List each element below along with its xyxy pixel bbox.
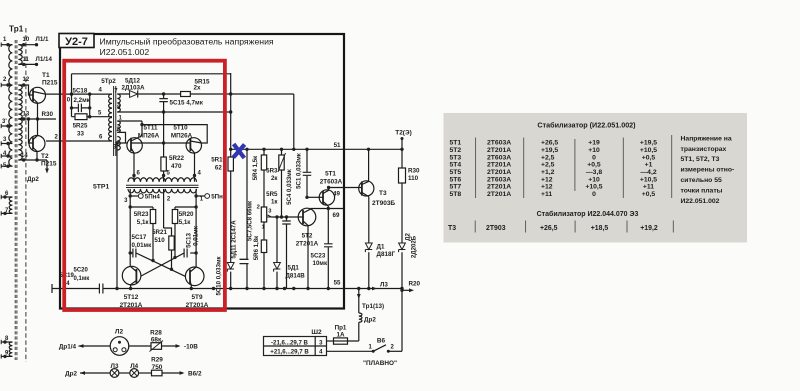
table panel: [444, 113, 748, 243]
svg-text:+11: +11: [541, 191, 552, 198]
wire T2 base from pin 13: [29, 119, 34, 143]
svg-text:55: 55: [334, 280, 341, 287]
svg-text:И22.051.002: И22.051.002: [100, 47, 150, 57]
svg-text:+1: +1: [645, 162, 653, 169]
svg-text:5R22: 5R22: [169, 155, 185, 162]
svg-text:+19,5: +19,5: [541, 147, 558, 154]
wire 5TP1 pin1 down to 5T9 collector: [195, 207, 197, 267]
svg-text:5R4 1,5к: 5R4 1,5к: [252, 155, 259, 180]
pin 49 wire to T3 base: [329, 187, 362, 189]
svg-text:+10,5: +10,5: [640, 147, 657, 154]
svg-text:5R3: 5R3: [266, 168, 278, 175]
diode 5D12 2D103A: [130, 91, 138, 98]
svg-text:+0,5: +0,5: [642, 191, 656, 198]
svg-text:62: 62: [215, 165, 222, 172]
arrow to L3 on bus 55: [372, 287, 377, 291]
svg-text:Т3: Т3: [448, 225, 456, 232]
svg-text:2Д202Б: 2Д202Б: [411, 235, 418, 258]
lamp L2: [110, 337, 129, 356]
svg-text:2Т201А: 2Т201А: [296, 241, 319, 248]
svg-text:5Д1: 5Д1: [288, 265, 300, 272]
svg-text:5R5: 5R5: [266, 191, 278, 198]
coupling wire box: [142, 125, 207, 143]
svg-text:0,01мк: 0,01мк: [132, 242, 153, 249]
pin 5 of 5TP1: [162, 174, 165, 177]
svg-text:5R25: 5R25: [73, 123, 88, 130]
svg-text:-10В: -10В: [184, 344, 198, 351]
svg-text:2Т603А: 2Т603А: [487, 154, 511, 161]
svg-text:В6: В6: [377, 338, 386, 345]
zener 5D1 D814V: [276, 217, 278, 289]
svg-text:2Т603А: 2Т603А: [487, 140, 511, 147]
svg-text:+0,5: +0,5: [587, 162, 601, 169]
svg-text:5Т8: 5Т8: [450, 191, 462, 198]
svg-text:+19,5: +19,5: [640, 140, 657, 147]
svg-text:5Пн4: 5Пн4: [145, 194, 161, 201]
capacitor 5C4 0,033mk: [286, 217, 288, 289]
svg-text:5Т3: 5Т3: [450, 154, 462, 161]
svg-text:Л3: Л3: [111, 363, 119, 370]
zener 5D11 2S147A: [227, 263, 234, 270]
5Tp2 primary winding 4-5-6: [109, 94, 112, 141]
lamp L3: [110, 369, 119, 378]
capacitors 5C7,5C8 66mk: [246, 149, 248, 288]
svg-text:2Т903: 2Т903: [486, 225, 506, 232]
svg-text:5С1 0,033мк: 5С1 0,033мк: [296, 152, 303, 189]
svg-text:2Т201А: 2Т201А: [487, 169, 511, 176]
svg-text:R20: R20: [409, 281, 421, 288]
resistor 5R6 1,8k: [263, 222, 265, 289]
svg-text:5ТР1: 5ТР1: [93, 184, 109, 191]
bus left T-end: [51, 284, 53, 293]
svg-text:И22.051.002: И22.051.002: [681, 198, 720, 205]
5Tp2 pin 4: [45, 93, 112, 95]
svg-text:+12: +12: [541, 176, 553, 183]
svg-text:2Т201А: 2Т201А: [186, 302, 209, 309]
svg-text:10мк: 10мк: [313, 260, 328, 267]
svg-text:+1,2: +1,2: [541, 169, 555, 176]
transformer Tr1 core (dashed): [15, 40, 17, 360]
svg-text:11: 11: [23, 57, 30, 63]
5Tp2 winding 7-8: [117, 94, 120, 112]
Tr1 winding 8-9: [9, 342, 12, 356]
Tr1 winding 12-13: [18, 85, 22, 119]
svg-text:+10: +10: [588, 176, 600, 183]
Tr1 pin 13 node (to T2 base and R30): [18, 118, 56, 120]
resistor 5R19 62: [228, 157, 233, 171]
svg-text:2х: 2х: [194, 85, 202, 92]
svg-text:5,1к: 5,1к: [179, 219, 192, 226]
wire 5TP1 pin3 down to 5T12 collector: [129, 207, 131, 266]
capacitor 5C15 4,7mk: [163, 94, 165, 143]
svg-text:+10,5: +10,5: [585, 184, 602, 191]
Tr1 pin 10 to lamp L1/1: [18, 44, 37, 46]
svg-text:2Т201А: 2Т201А: [487, 162, 511, 169]
red marker box: [64, 61, 225, 310]
diode D2 2D202B: [399, 243, 406, 250]
Tr1 pin 14 to Dr2: [18, 160, 47, 171]
5Tp2 pin 7: [117, 93, 119, 95]
transistor 5T1 2T603A: [319, 190, 334, 205]
5TP1 pin 3 stub: [129, 189, 131, 207]
svg-text:R29: R29: [151, 357, 163, 364]
resistor 5R22 470: [163, 143, 165, 182]
arrow to R20: [402, 289, 409, 291]
Tr1 pin 3: [1, 143, 12, 145]
svg-text:Т1: Т1: [42, 72, 50, 79]
svg-text:5Т4: 5Т4: [450, 162, 462, 169]
svg-text:+10: +10: [588, 147, 600, 154]
5Tp2 pin 3 stub: [116, 149, 118, 151]
svg-text:Ш2: Ш2: [311, 329, 322, 336]
cross-coupling wire to 5T12 base: [141, 253, 184, 276]
top feedback wire y=73: [72, 73, 231, 75]
svg-text:R30: R30: [408, 168, 420, 175]
svg-text:5С15 4,7мк: 5С15 4,7мк: [170, 100, 204, 107]
svg-text:5Т1, 5Т2, Т3: 5Т1, 5Т2, Т3: [681, 156, 720, 163]
svg-text:10: 10: [23, 37, 30, 43]
svg-text:R30: R30: [42, 111, 54, 118]
svg-text:П215: П215: [42, 80, 58, 87]
svg-text:МП26А: МП26А: [171, 133, 193, 140]
fuse Pr1 1A: [334, 338, 348, 344]
svg-text:"ПЛАВНО": "ПЛАВНО": [363, 360, 397, 367]
svg-text:470: 470: [171, 163, 182, 170]
svg-text:Стабилизатор (И22.051.002): Стабилизатор (И22.051.002): [537, 121, 636, 130]
svg-text:33: 33: [77, 131, 84, 138]
Tr1 pin 3': [1, 125, 12, 127]
svg-text:5Т5: 5Т5: [450, 169, 462, 176]
svg-text:5С10 0,033мк: 5С10 0,033мк: [216, 256, 223, 296]
T3 row separators: [475, 221, 673, 233]
svg-text:Импульсный преобразователь нап: Импульсный преобразователь напряжения: [100, 37, 274, 47]
svg-text:Л1/14: Л1/14: [36, 56, 53, 63]
Tr1 pin 11 to lamp L1/14: [18, 63, 37, 65]
lamp L2 row wire: [79, 344, 84, 348]
module U2-7 border: [60, 34, 344, 309]
pin 69 row: [310, 208, 343, 210]
transistor 5T11 MP26A: [127, 138, 142, 153]
svg-text:0: 0: [592, 154, 596, 161]
svg-text:МП26А: МП26А: [138, 133, 160, 140]
svg-text:+26,5: +26,5: [540, 225, 558, 232]
svg-text:5С4 0,033мк: 5С4 0,033мк: [286, 168, 293, 205]
svg-text:транзисторах: транзисторах: [681, 146, 727, 153]
svg-text:5Т9: 5Т9: [191, 294, 202, 301]
transformer Tr1 primary winding: [9, 45, 13, 167]
svg-text:5Д11 2С147А: 5Д11 2С147А: [230, 220, 237, 259]
svg-text:0,1мк: 0,1мк: [74, 276, 90, 282]
svg-text:2: 2: [257, 205, 260, 211]
svg-text:5С23: 5С23: [311, 253, 326, 260]
svg-text:2Т201А: 2Т201А: [120, 302, 143, 309]
Tr1 winding 6-7: [9, 197, 12, 213]
5TP1 pin 2 stub to 5R21: [164, 189, 172, 236]
transformer Tr1 shield (dash line): [25, 28, 27, 362]
svg-text:5С17: 5С17: [132, 234, 147, 241]
resistor R30 110: [401, 149, 403, 243]
svg-text:2к: 2к: [271, 175, 278, 182]
resistor R29 750: [152, 370, 163, 376]
resistor 5R25 33: [72, 116, 113, 118]
svg-text:0: 0: [592, 191, 596, 198]
svg-text:В6/2: В6/2: [188, 371, 202, 378]
svg-text:+11: +11: [643, 184, 654, 191]
node x=90: [89, 94, 91, 117]
cross-coupling wire to 5T9 base: [136, 253, 185, 276]
pin 6 of 5TP1: [132, 174, 135, 177]
svg-text:Др2: Др2: [27, 176, 39, 183]
svg-text:49: 49: [333, 191, 340, 198]
5TP1 top winding: [128, 178, 197, 182]
svg-text:5Т7: 5Т7: [450, 184, 462, 191]
svg-text:Др2: Др2: [65, 371, 77, 378]
svg-text:0,01мк: 0,01мк: [193, 225, 200, 246]
pin 4 of 5TP1: [193, 174, 196, 177]
svg-text:Т2(Э): Т2(Э): [395, 129, 412, 136]
transistor 5T12 2T201A: [122, 266, 141, 285]
svg-text:+19: +19: [588, 140, 600, 147]
svg-text:5R20: 5R20: [179, 211, 194, 218]
svg-text:Тр1: Тр1: [9, 25, 24, 34]
svg-text:5R6 1,8к: 5R6 1,8к: [253, 235, 260, 260]
resistor 5R15 2x: [181, 92, 191, 97]
svg-text:+12: +12: [541, 184, 553, 191]
5Tp2 winding 2-3: [117, 137, 120, 151]
svg-text:5Т1: 5Т1: [325, 171, 336, 178]
svg-text:Пр1: Пр1: [335, 325, 347, 332]
svg-text:5Т1: 5Т1: [450, 140, 462, 147]
table column separators: [476, 135, 672, 198]
svg-text:+26,5: +26,5: [541, 140, 558, 147]
lamp L4: [130, 369, 139, 378]
transistor 5T9 2T201A: [185, 267, 204, 286]
svg-text:68к: 68к: [151, 337, 162, 344]
svg-text:14: 14: [21, 153, 28, 159]
svg-text:-21,6...29,7 В: -21,6...29,7 В: [271, 339, 309, 346]
svg-text:Т3: Т3: [379, 190, 387, 197]
svg-text:2Т903Б: 2Т903Б: [372, 200, 395, 207]
svg-text:5Т2: 5Т2: [450, 147, 462, 154]
base row wire to 5T2: [272, 216, 304, 218]
5Tp2 winding 1-2: [117, 121, 120, 132]
svg-text:1А: 1А: [336, 332, 345, 339]
svg-text:51: 51: [334, 142, 341, 149]
series capacitor 5C20 0,1mk: [99, 284, 103, 294]
svg-text:5,1к: 5,1к: [137, 219, 150, 226]
5Tp2 pin 2 wire: [117, 132, 125, 143]
resistor 5R23 5,1k: [130, 207, 153, 261]
svg-text:Л2: Л2: [115, 329, 124, 336]
switch V6: [327, 350, 373, 352]
svg-text:5Т6: 5Т6: [450, 176, 462, 183]
vertical x=230.7 with 5R19 and 5D11: [230, 73, 232, 289]
Tr1 pin 12 wire to T1 base: [18, 85, 33, 95]
svg-text:750: 750: [152, 364, 163, 371]
svg-text:2Т201А: 2Т201А: [487, 147, 511, 154]
Tr1 pin 5: [1, 165, 12, 167]
resistor 5R3 2k (trimmer): [281, 149, 283, 217]
left vertical x=117: [116, 143, 118, 289]
svg-text:+18,5: +18,5: [591, 225, 609, 232]
svg-text:Стабилизатор И22.044.070 Э3: Стабилизатор И22.044.070 Э3: [537, 210, 639, 218]
svg-text:+2,5: +2,5: [541, 162, 555, 169]
choke Dr2: [359, 313, 362, 322]
svg-text:2Д103А: 2Д103А: [121, 85, 144, 92]
svg-text:точки платы: точки платы: [681, 188, 723, 195]
transistor 5T10 MP26A: [186, 138, 201, 153]
svg-text:+10,5: +10,5: [640, 176, 657, 183]
svg-text:+19,2: +19,2: [640, 225, 658, 232]
svg-text:5Д12: 5Д12: [125, 78, 140, 85]
5Tp2 pin 8 row: [117, 111, 230, 113]
resistor R28 68k: [151, 343, 162, 350]
main bus 51 row y=149.3: [231, 148, 402, 150]
test point 5Pn4: [130, 195, 138, 197]
zener D1 D818G: [365, 243, 372, 250]
5TP1 core: [126, 185, 199, 187]
5Tp2 pin 1 row: [117, 120, 142, 122]
svg-text:Тр1(13): Тр1(13): [362, 303, 384, 310]
test point 5Pn3: [196, 195, 205, 197]
svg-text:2Т603А: 2Т603А: [487, 176, 511, 183]
capacitor 5C23 10mk: [327, 209, 329, 289]
svg-text:Др1/4: Др1/4: [59, 344, 77, 351]
wire down to Tr1(13)/Dr2: [358, 289, 360, 314]
U2-7 label box: [59, 34, 94, 48]
5Tp2 core: [114, 86, 116, 156]
svg-text:2Т201А: 2Т201А: [487, 191, 511, 198]
potentiometer 5R5 1k: [261, 207, 266, 222]
svg-text:R28: R28: [150, 330, 162, 337]
svg-text:Т2: Т2: [41, 153, 49, 160]
5TP1 bottom winding: [128, 189, 197, 193]
Tr1 secondary winding 10-11: [18, 45, 22, 65]
svg-text:+2,5: +2,5: [541, 154, 555, 161]
Tr1 pin 1: [1, 44, 12, 46]
svg-text:13: 13: [23, 112, 30, 118]
svg-text:110: 110: [408, 175, 419, 182]
transistor T3 2T903B: [359, 181, 374, 196]
svg-text:5С13: 5С13: [185, 233, 192, 248]
svg-text:5С20: 5С20: [74, 268, 89, 274]
Tr1 winding 13-14: [18, 119, 22, 160]
blue X mark: [233, 144, 244, 158]
transistor T2 P215: [29, 136, 45, 152]
capacitor 5C13 0,01mk: [190, 252, 196, 254]
Tr1 pin 2: [1, 84, 12, 86]
svg-text:5Т11: 5Т11: [143, 125, 158, 132]
transistor 5T2 2T201A: [298, 208, 316, 226]
svg-text:2Т201А: 2Т201А: [487, 184, 511, 191]
svg-text:2Т603А: 2Т603А: [320, 179, 343, 186]
svg-text:—3,8: —3,8: [586, 169, 602, 176]
svg-text:У2-7: У2-7: [65, 36, 88, 48]
bus 55 wire: [52, 288, 402, 290]
transistor T1 P215: [30, 87, 46, 103]
svg-text:Др2: Др2: [364, 317, 376, 324]
svg-text:+21,6...29,7 В: +21,6...29,7 В: [270, 349, 309, 356]
svg-text:5С19: 5С19: [60, 273, 75, 279]
capacitor 5C1 0,033mk: [306, 149, 308, 197]
svg-text:5R23: 5R23: [134, 211, 149, 218]
svg-text:12: 12: [23, 77, 30, 83]
svg-text:69: 69: [333, 212, 340, 219]
svg-text:сительно 55: сительно 55: [681, 177, 722, 184]
Tr1 pin 4: [1, 155, 12, 157]
svg-text:Л3: Л3: [380, 282, 388, 289]
svg-text:П215: П215: [41, 161, 57, 168]
svg-text:Д818Г: Д818Г: [377, 251, 396, 258]
svg-text:измерены отно-: измерены отно-: [681, 167, 735, 174]
svg-text:+0,5: +0,5: [642, 154, 656, 161]
5TP1 pin 1 stub: [195, 189, 197, 207]
svg-text:2,2мк: 2,2мк: [74, 97, 91, 104]
capacitor 5C17 0,01mk: [130, 252, 133, 254]
svg-text:Д814В: Д814В: [286, 273, 306, 280]
svg-text:510: 510: [154, 237, 165, 244]
svg-text:1к: 1к: [271, 199, 278, 206]
Tr1 terminal ticks: [0, 43, 2, 47]
svg-text:3': 3': [2, 119, 7, 125]
svg-text:Л1/1: Л1/1: [36, 36, 50, 43]
svg-text:5С18: 5С18: [73, 87, 88, 94]
resistor 5R4 1,5k: [263, 149, 265, 207]
svg-text:5С7,5С8 66мк: 5С7,5С8 66мк: [246, 200, 253, 241]
svg-text:5Тр2: 5Тр2: [101, 78, 116, 85]
vertical wire x=71: [71, 74, 73, 117]
svg-text:Л4: Л4: [130, 363, 138, 370]
svg-text:5R21: 5R21: [152, 229, 167, 236]
svg-text:5Т10: 5Т10: [173, 125, 188, 132]
svg-text:—4,2: —4,2: [640, 169, 656, 176]
svg-text:5Т12: 5Т12: [124, 294, 139, 301]
wire pin1 to collector 5T11: [141, 121, 143, 135]
resistor 5R20 5,1k: [175, 207, 196, 257]
svg-text:5Т2: 5Т2: [302, 233, 313, 240]
base row wire: [117, 142, 190, 144]
svg-text:Напряжение на: Напряжение на: [681, 135, 732, 142]
5Tp2 pin 6 / border pin 2 wire from T2 emitter side: [46, 140, 112, 142]
svg-text:Д1: Д1: [377, 244, 385, 251]
resistor 5R21 510: [169, 236, 174, 250]
top row wire y=94: [120, 94, 294, 149]
